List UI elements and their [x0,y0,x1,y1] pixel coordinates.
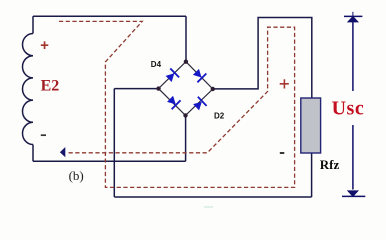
wire: right node up-and-over to resistor top [213,18,312,99]
diode (bottom-left arm) [166,94,182,110]
wire: bottom horizontal [114,196,311,198]
polarity + at load [280,79,289,88]
svg-text:E2: E2 [41,77,60,94]
stray teal mark [204,206,213,208]
node right junction [211,87,215,91]
node top junction [184,60,188,64]
resistor Rfz body [301,98,321,153]
dimension up arrowhead [347,16,359,23]
dimension bottom tick [342,195,365,197]
diode D4 (top-left arm) [164,68,180,84]
svg-text:D2: D2 [214,111,225,120]
svg-text:Rfz: Rfz [320,157,340,172]
wire: coil top stub [32,16,34,33]
dimension top stub [352,12,354,16]
diode (top-right arm) [191,67,207,83]
inductor E2 winding [23,34,33,145]
wire: bridge top node riser [185,16,187,62]
dimension line for Usc [352,22,354,190]
dimension down arrowhead [347,190,359,197]
current path dashed loop [59,21,295,187]
node bottom junction [183,113,187,117]
svg-text:D4: D4 [151,60,162,69]
node left junction [156,86,160,90]
wire: resistor bottom riser [311,153,313,197]
polarity - at coil [41,134,46,136]
wire: bottom-left horizontal to bridge bottom [33,160,186,162]
polarity - at load [280,152,285,154]
current direction arrowhead [60,147,65,157]
dimension top tick [344,15,362,17]
wire: left node to left drop [114,88,158,90]
polarity + at coil [41,41,49,49]
wire: top horizontal from transformer to bridge top [33,15,186,17]
wire: coil bottom stub [32,145,34,162]
bridge diamond edges [159,62,213,116]
svg-text:Usc: Usc [332,98,365,120]
wire: left vertical drop [113,89,115,197]
diode D2 (bottom-right arm) [192,96,208,112]
wire: bridge bottom node drop [185,115,187,161]
svg-text:(b): (b) [69,168,84,183]
